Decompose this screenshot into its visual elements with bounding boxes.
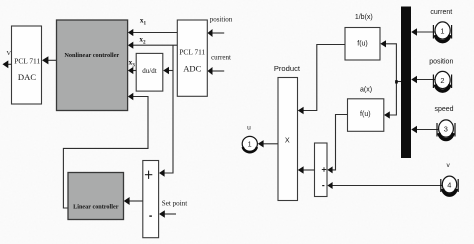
wire x2 [132,44,177,46]
arrow V out [3,60,9,68]
svg-text:PCL 711: PCL 711 [14,57,40,66]
wire branch from x2 down to sum [164,45,173,173]
arrow product out into u port [258,140,264,147]
arrow position into ADC [208,29,213,37]
input port circle 4 v [441,176,458,195]
wire NL to DAC [48,59,57,61]
arrow 4th into NL [128,93,133,101]
arrow x2 into NL [128,42,133,49]
svg-text:3: 3 [444,125,448,134]
arrow into du/dt [163,67,169,74]
wire f2 out to sum2 [333,115,348,170]
block sum1 [143,161,159,238]
svg-text:Product: Product [274,64,301,73]
svg-text:u: u [247,125,251,132]
mux bar [401,7,411,159]
text labels right diagram [247,9,453,186]
arrow sum2 out into product [298,166,304,174]
arrow current into ADC [208,67,213,75]
arrow x1 into NL [128,29,133,36]
svg-text:ADC: ADC [183,64,201,74]
wire position stub [212,32,225,34]
wire sum1 output to LC [129,200,143,202]
wire x1 [132,32,177,34]
wire port1 to mux [417,31,436,33]
arrow into f2 [384,111,390,118]
svg-text:1: 1 [248,140,252,149]
svg-text:X: X [285,136,290,145]
wire LC output to NL 4th input [63,97,148,209]
input port circle 1 current [433,22,451,42]
svg-text:1: 1 [440,27,444,36]
svg-text:current: current [211,54,231,62]
svg-text:Set point: Set point [162,200,187,208]
svg-text:Nonlinear controller: Nonlinear controller [64,52,119,59]
arrow port2 into mux [411,76,417,83]
block sum2 [315,143,328,197]
wire port2 to mux [417,79,436,81]
wire x3 [132,70,136,72]
wire mux output stub [396,81,401,83]
wire set point stub [164,213,176,215]
svg-text:f(u): f(u) [357,40,368,47]
wire branch to du/dt input [169,70,174,72]
svg-text:1/b(x): 1/b(x) [355,14,373,21]
text labels left diagram [6,16,232,217]
wire sum2 out to product [303,169,315,171]
arrow f1 out into product [298,107,304,115]
arrow into sum2 minus [327,182,332,189]
svg-text:Linear controller: Linear controller [73,204,119,211]
label minus sum2 [322,185,324,186]
svg-text:position: position [210,16,233,24]
block PCL 711 DAC [12,26,42,104]
block Nonlinear controller [57,20,128,111]
svg-text:a(x): a(x) [360,87,372,94]
block PCL 711 ADC [177,20,207,96]
svg-text:4: 4 [447,181,451,190]
wire product out to u port [263,143,278,145]
wire DAC output V [8,63,12,65]
wire mux out to f1 [386,44,397,115]
arrow into DAC [42,56,48,64]
svg-text:V: V [6,50,11,57]
junction dot mux output [395,80,398,83]
label plus sum2 [322,167,326,171]
svg-text:du/dt: du/dt [142,67,156,75]
arrow into sum2 plus [327,166,332,173]
block Product [278,78,298,201]
wire port3 to mux [417,129,439,131]
wire f1 out to product [303,45,345,111]
arrow into sum1 plus [159,169,165,177]
input port circle 3 speed [437,120,455,140]
arrow x3 into NL [128,67,133,74]
label plus sum1 [145,171,152,179]
label minus sum1 [149,215,152,216]
input port circle 2 position [433,71,451,91]
svg-text:position: position [429,59,453,66]
arrow port1 into mux [411,28,417,35]
svg-text:DAC: DAC [18,72,36,82]
svg-text:current: current [430,9,452,16]
arrow into sum1 minus [159,210,165,218]
arrow into f1 [380,40,386,47]
block Linear controller [68,173,124,220]
block du/dt [136,53,163,91]
arrow sum1 to LC [124,197,130,205]
svg-text:2: 2 [440,76,444,85]
svg-text:f(u): f(u) [360,111,371,118]
svg-text:PCL 711: PCL 711 [179,48,205,57]
arrowheads [3,28,418,218]
block f(u) 2 [348,99,384,132]
arrow port3 into mux [411,126,417,133]
svg-text:speed: speed [434,106,453,113]
wire current stub [212,70,225,72]
output port oval u [242,136,257,152]
wire v port to sum2 minus [333,185,443,187]
block f(u) 1 [345,28,380,61]
